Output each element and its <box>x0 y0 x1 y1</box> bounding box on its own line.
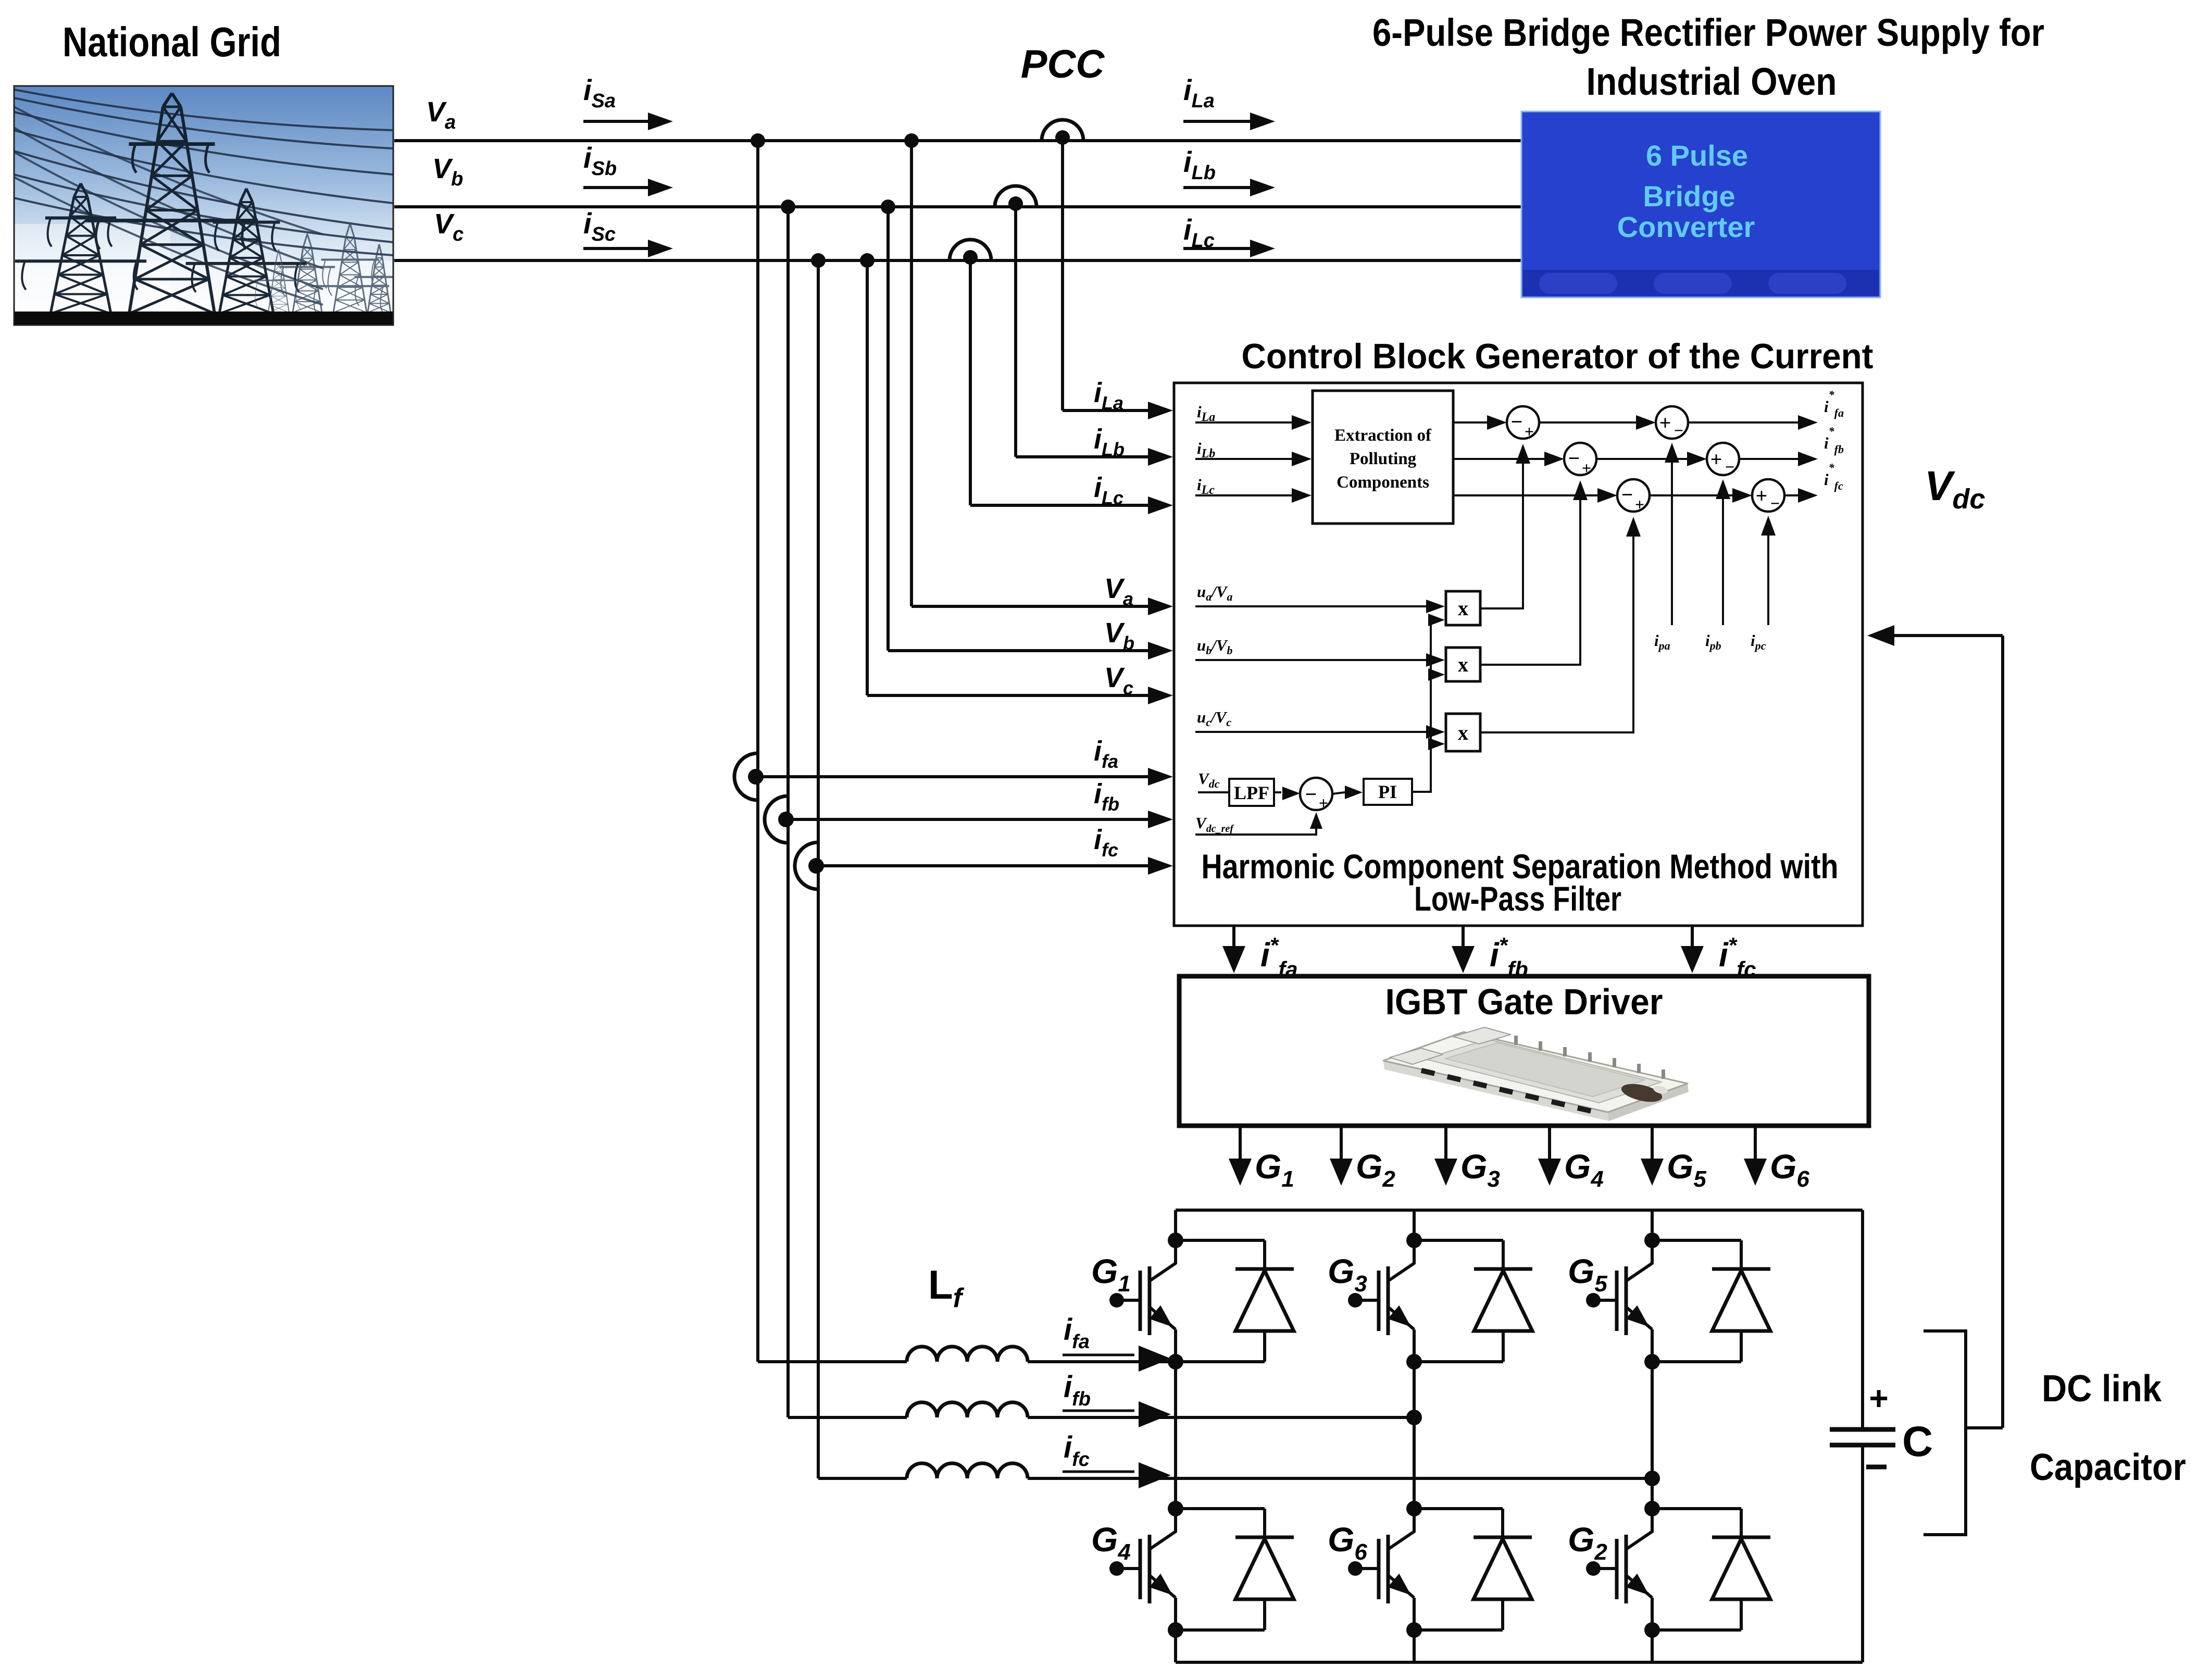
transistor G3 <box>1406 1233 1422 1248</box>
node phase-a voltage tap <box>904 133 919 148</box>
svg-text:Industrial Oven: Industrial Oven <box>1587 60 1837 103</box>
CT sensor iLa at PCC <box>1042 120 1083 141</box>
wire Vdc_ref row <box>1195 816 1316 835</box>
svg-text:Control Block Generator of the: Control Block Generator of the Current <box>1242 337 1874 376</box>
wire iLa measurement <box>1061 141 1064 410</box>
diode D6 <box>1414 1507 1503 1510</box>
6 pulse bridge converter block <box>1521 111 1880 297</box>
svg-text:Low-Pass Filter: Low-Pass Filter <box>1414 879 1621 918</box>
wire gate G6 <box>1754 1126 1757 1176</box>
node leg3 phase c <box>1644 1471 1660 1486</box>
wire S7 to PI <box>1332 792 1345 794</box>
wire arrow <box>583 120 650 123</box>
inductor Lf phase c <box>818 1477 907 1480</box>
wire Vdc feedback <box>2001 636 2004 1428</box>
bracket dc link <box>1924 1331 1966 1535</box>
svg-text:6 Pulse: 6 Pulse <box>1646 139 1748 172</box>
wire output ifb* <box>1739 458 1799 460</box>
wire arrow <box>1183 120 1250 123</box>
wire S2 to S5 <box>1596 458 1688 460</box>
multiplier M1 <box>1446 591 1480 625</box>
svg-text:x: x <box>1458 596 1468 620</box>
wire phase c <box>394 259 1521 262</box>
summer S7 <box>1300 778 1332 810</box>
summer S2 <box>1564 443 1596 475</box>
summer S5 <box>1707 443 1739 475</box>
svg-text:Polluting: Polluting <box>1350 450 1417 468</box>
svg-text:+: + <box>1582 458 1591 477</box>
svg-text:Capacitor: Capacitor <box>2030 1447 2186 1488</box>
wire inverter leg <box>1413 1210 1416 1264</box>
CT sensor ifb <box>765 796 788 843</box>
CT sensor ifa <box>734 753 758 800</box>
wire iLc measurement <box>969 260 972 505</box>
wire iLb row <box>1195 458 1293 460</box>
capacitor C <box>1830 1427 1895 1432</box>
svg-text:IGBT Gate Driver: IGBT Gate Driver <box>1385 981 1663 1022</box>
transistor G6 <box>1406 1501 1422 1516</box>
LPF block <box>1229 779 1274 806</box>
svg-text:PI: PI <box>1378 781 1397 802</box>
wire gate G2 <box>1340 1126 1343 1176</box>
wire arrow <box>1183 186 1250 189</box>
summer S6 <box>1752 479 1784 512</box>
extraction of polluting components block <box>1313 391 1453 524</box>
wire gate G1 <box>1239 1126 1242 1176</box>
wire i*fa output <box>1232 926 1235 963</box>
transistor G2 <box>1644 1501 1660 1516</box>
wire output ifa* <box>1688 421 1799 424</box>
svg-text:Bridge: Bridge <box>1643 180 1735 213</box>
wire extraction out a <box>1453 421 1488 424</box>
wire inverter leg <box>1174 1210 1177 1264</box>
inductor Lf phase a <box>758 1360 907 1363</box>
svg-text:PCC: PCC <box>1021 42 1105 86</box>
multiplier M2 <box>1446 648 1480 681</box>
wire S3 to S6 <box>1650 494 1733 496</box>
diode D1 <box>1176 1239 1265 1242</box>
svg-text:+: + <box>1869 1379 1888 1417</box>
wire ua/Va row <box>1195 605 1427 607</box>
wire M1 to S1 <box>1480 448 1523 608</box>
wire gate G4 <box>1548 1126 1551 1176</box>
transistor G1 <box>1168 1233 1183 1248</box>
svg-text:6-Pulse Bridge Rectifier Power: 6-Pulse Bridge Rectifier Power Supply fo… <box>1372 11 2044 54</box>
transistor G5 <box>1644 1233 1660 1248</box>
wire ifb measurement <box>788 818 1150 821</box>
wire gate G5 <box>1651 1126 1654 1176</box>
wire dc- rail <box>1176 1661 1863 1664</box>
svg-text:−: − <box>1725 457 1734 476</box>
diode D3 <box>1414 1239 1503 1242</box>
wire dc+ rail <box>1176 1209 1863 1212</box>
CT sensor iLc at PCC <box>950 240 991 260</box>
svg-text:−: − <box>1621 483 1633 506</box>
node phase-a filter tap <box>751 133 765 148</box>
inductor Lf phase b <box>788 1416 907 1419</box>
svg-text:+: + <box>1319 793 1328 812</box>
PI block <box>1364 779 1412 805</box>
wire ifa measurement <box>758 775 1150 778</box>
node leg2 phase b <box>1406 1410 1422 1425</box>
svg-text:DC link: DC link <box>2042 1368 2162 1410</box>
wire filter phase b <box>786 207 790 1417</box>
svg-text:−: − <box>1511 410 1523 433</box>
wire dc bus <box>1861 1210 1864 1429</box>
svg-text:Converter: Converter <box>1617 210 1755 243</box>
wire S1 to S4 <box>1539 421 1637 424</box>
svg-text:+: + <box>1710 447 1722 471</box>
wire arrow <box>583 247 650 250</box>
wire iLa row <box>1195 421 1293 424</box>
wire inverter leg <box>1651 1210 1654 1264</box>
svg-text:−: − <box>1568 446 1580 470</box>
wire bracket tap <box>1966 1426 2003 1429</box>
wire M3 to S3 <box>1480 521 1633 732</box>
summer S1 <box>1507 406 1539 439</box>
wire ipb feed <box>1722 482 1724 625</box>
multiplier M3 <box>1446 714 1480 751</box>
svg-text:−: − <box>1770 494 1780 513</box>
svg-text:C: C <box>1902 1418 1933 1465</box>
IGBT module image <box>1383 1027 1689 1121</box>
svg-text:x: x <box>1458 721 1468 744</box>
wire filter phase c <box>817 260 820 1478</box>
wire M2 to S2 <box>1480 484 1580 665</box>
control block generator box <box>1174 383 1863 926</box>
wire arrow <box>1063 1410 1134 1412</box>
svg-text:Extraction of: Extraction of <box>1334 426 1432 445</box>
svg-text:−: − <box>1305 782 1317 806</box>
svg-text:x: x <box>1458 653 1468 676</box>
wire extraction out c <box>1453 494 1598 496</box>
wire ipc feed <box>1767 519 1769 625</box>
wire Va measurement <box>910 141 913 606</box>
CT sensor ifc <box>795 842 818 889</box>
wire i*fc output <box>1691 926 1694 963</box>
svg-text:+: + <box>1756 484 1768 507</box>
wire ub/Vb row <box>1195 659 1427 661</box>
node phase-c voltage tap <box>860 253 875 268</box>
diode D2 <box>1652 1507 1741 1510</box>
wire i*fb output <box>1462 926 1465 963</box>
CT sensor iLb at PCC <box>995 186 1036 207</box>
wire arrow <box>1063 1354 1134 1357</box>
diode D5 <box>1652 1239 1741 1242</box>
wire LPF to S7 <box>1274 791 1281 793</box>
svg-text:−: − <box>1674 421 1683 440</box>
wire uc/Vc row <box>1195 731 1427 733</box>
wire iLc row <box>1195 494 1293 496</box>
svg-text:Components: Components <box>1337 473 1429 492</box>
wire gate G3 <box>1444 1126 1447 1176</box>
node phase-b filter tap <box>781 200 795 214</box>
node phase-b voltage tap <box>881 200 895 214</box>
wire Vc measurement <box>866 260 869 695</box>
wire phase b <box>394 205 1521 208</box>
wire arrow <box>1063 1471 1134 1473</box>
wire ifc measurement <box>818 864 1150 867</box>
wire arrow <box>1183 247 1250 250</box>
wire output ifc* <box>1784 494 1799 496</box>
svg-text:National Grid: National Grid <box>63 19 281 65</box>
wire phase a <box>394 139 1521 142</box>
wire arrow <box>583 186 650 189</box>
node phase-c filter tap <box>811 253 826 268</box>
wire Vdc row <box>1198 791 1229 793</box>
IGBT gate driver box <box>1179 976 1869 1126</box>
wire filter phase a <box>756 141 759 1362</box>
svg-text:LPF: LPF <box>1234 782 1269 803</box>
wire iLb measurement <box>1014 207 1017 457</box>
wire Vb measurement <box>886 207 890 651</box>
svg-text:+: + <box>1659 411 1671 434</box>
wire PI output feed <box>1412 620 1439 792</box>
summer S3 <box>1617 479 1650 512</box>
transistor G4 <box>1168 1501 1183 1516</box>
svg-text:+: + <box>1525 422 1534 441</box>
svg-text:+: + <box>1635 495 1644 514</box>
wire extraction out b <box>1453 458 1545 460</box>
wire ipa feed <box>1671 446 1673 625</box>
summer S4 <box>1656 406 1688 439</box>
diode D4 <box>1176 1507 1265 1510</box>
